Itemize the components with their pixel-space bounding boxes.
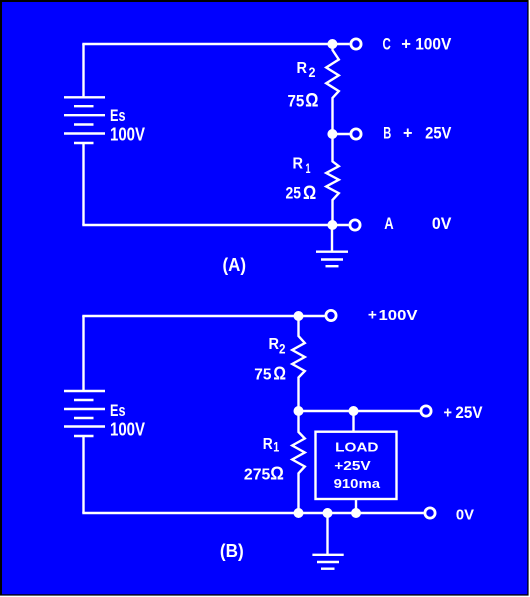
svg-text:100V: 100V bbox=[110, 125, 145, 145]
svg-text:275: 275 bbox=[244, 466, 270, 483]
battery A long plate 1 bbox=[64, 96, 105, 98]
wire: A top-left vertical (battery top to top rail) bbox=[82, 44, 84, 97]
wire: B top rail horizontal bbox=[82, 315, 324, 317]
svg-text:25V: 25V bbox=[425, 124, 451, 143]
ground A bar 2 bbox=[321, 258, 343, 260]
node C bbox=[327, 39, 337, 49]
ground A stem bbox=[331, 225, 333, 252]
node B-top (+100V junction) bbox=[294, 311, 304, 321]
node A bbox=[327, 220, 337, 230]
svg-text:100V: 100V bbox=[110, 420, 145, 440]
svg-text:100V: 100V bbox=[415, 34, 451, 53]
svg-text:25: 25 bbox=[286, 185, 302, 203]
svg-text:R: R bbox=[297, 60, 308, 77]
wire: A top rail horizontal bbox=[82, 43, 349, 45]
ground B stem bbox=[326, 513, 328, 555]
svg-text:2: 2 bbox=[279, 341, 286, 357]
node B-bottom right (load bottom) bbox=[351, 508, 361, 518]
svg-text:(B): (B) bbox=[220, 540, 244, 561]
battery B long plate 1 bbox=[64, 390, 105, 392]
ground A bar 3 bbox=[326, 265, 339, 267]
wire: load bottom stub bbox=[355, 499, 357, 513]
wire: load top stub bbox=[352, 411, 354, 432]
svg-text:Ω: Ω bbox=[303, 183, 316, 204]
terminal 0V bbox=[425, 508, 435, 518]
wire: B bottom-left vertical (battery bottom down) bbox=[82, 437, 84, 513]
resistor R1 (25 ohm) zigzag bbox=[326, 134, 339, 225]
svg-text:1: 1 bbox=[306, 160, 311, 176]
svg-text:R: R bbox=[269, 336, 280, 353]
svg-text:910ma: 910ma bbox=[334, 476, 381, 491]
node B-bottom left (R1 bottom) bbox=[294, 508, 304, 518]
svg-text:R: R bbox=[263, 436, 273, 453]
resistor R1 (275 ohm, B) zigzag bbox=[292, 411, 305, 513]
battery Es (A) plates bbox=[64, 97, 105, 143]
wire: B +25V rail horizontal bbox=[299, 410, 420, 412]
svg-text:+: + bbox=[401, 35, 411, 53]
svg-text:A: A bbox=[384, 215, 394, 233]
terminal B bbox=[351, 129, 361, 139]
svg-text:75: 75 bbox=[254, 367, 271, 384]
battery B short plate 2 bbox=[74, 417, 94, 419]
svg-text:(A): (A) bbox=[223, 254, 247, 275]
svg-text:2: 2 bbox=[309, 64, 316, 80]
resistor R2 (75 ohm, B) zigzag bbox=[292, 316, 305, 411]
svg-text:0V: 0V bbox=[456, 508, 474, 524]
wire: B bottom rail horizontal bbox=[82, 512, 424, 514]
svg-text:+25V: +25V bbox=[334, 458, 371, 473]
wire: B top-left vertical (battery top to top rail) bbox=[82, 316, 84, 390]
battery Es (B) plates bbox=[64, 391, 105, 436]
terminal A bbox=[350, 220, 360, 230]
battery A short plate 1 bbox=[74, 105, 94, 107]
terminal +25V bbox=[421, 406, 431, 416]
wire: A bottom-left vertical (battery bottom down) bbox=[82, 144, 84, 225]
svg-text:Ω: Ω bbox=[270, 464, 284, 484]
svg-text:Es: Es bbox=[110, 402, 126, 420]
battery B short plate 3 bbox=[74, 435, 94, 437]
svg-text:Ω: Ω bbox=[273, 364, 286, 384]
svg-text:+: + bbox=[444, 404, 453, 421]
ground B bar 1 bbox=[312, 554, 343, 556]
terminal C bbox=[351, 39, 361, 49]
resistor R2 (75 ohm) zigzag bbox=[326, 44, 339, 134]
svg-text:B: B bbox=[383, 125, 391, 143]
svg-text:25V: 25V bbox=[455, 404, 482, 422]
terminal +100V bbox=[326, 310, 336, 320]
node B-mid left (+25V junction at divider) bbox=[294, 406, 304, 416]
battery A short plate 3 bbox=[74, 142, 94, 144]
svg-text:LOAD: LOAD bbox=[335, 439, 378, 454]
node B-mid right (load top junction) bbox=[349, 406, 359, 416]
svg-text:Es: Es bbox=[110, 107, 126, 125]
ground B bar 3 bbox=[321, 568, 335, 570]
battery A short plate 2 bbox=[74, 123, 94, 125]
battery B long plate 3 bbox=[64, 425, 105, 427]
svg-text:+: + bbox=[403, 125, 413, 143]
wire: stub node B to terminal B bbox=[333, 133, 351, 135]
node B bbox=[327, 129, 337, 139]
svg-text:0V: 0V bbox=[432, 214, 452, 233]
svg-text:+: + bbox=[368, 307, 377, 324]
ground B bar 2 bbox=[317, 561, 339, 563]
node B-bottom mid (ground junction) bbox=[323, 508, 333, 518]
LOAD box bbox=[316, 432, 397, 499]
svg-text:Ω: Ω bbox=[305, 91, 318, 112]
battery A long plate 3 bbox=[64, 132, 105, 134]
svg-text:1: 1 bbox=[273, 438, 279, 454]
svg-text:100V: 100V bbox=[379, 307, 418, 324]
wire: A bottom rail horizontal bbox=[82, 224, 348, 226]
ground A bar 1 bbox=[316, 250, 348, 252]
battery B short plate 1 bbox=[74, 399, 94, 401]
battery A long plate 2 bbox=[64, 114, 105, 116]
svg-text:C: C bbox=[383, 35, 391, 53]
battery B long plate 2 bbox=[64, 408, 105, 410]
svg-text:75: 75 bbox=[288, 92, 305, 110]
svg-text:R: R bbox=[293, 156, 304, 173]
